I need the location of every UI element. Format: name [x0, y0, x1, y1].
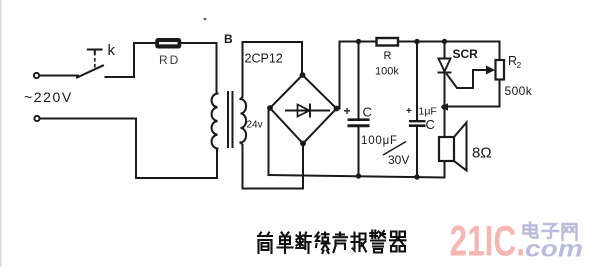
switch K dashed actuator line	[94, 52, 96, 70]
capacitor C 100uF plates	[348, 118, 370, 121]
svg-text:k: k	[108, 42, 116, 59]
svg-text:8Ω: 8Ω	[472, 145, 492, 162]
svg-text:21IC.: 21IC.	[450, 218, 526, 266]
fuse RD	[156, 39, 181, 48]
watermark 电子网 (hand-drawn strokes)	[524, 223, 577, 241]
node C+ on rail	[356, 39, 361, 44]
SCR cathode lead	[444, 73, 446, 138]
svg-text:C: C	[363, 105, 372, 120]
svg-text:R: R	[384, 50, 392, 62]
resistor R 100k	[377, 38, 399, 46]
bridge diode symbol	[286, 105, 329, 117]
svg-text:30V: 30V	[388, 153, 409, 167]
speaker horn	[454, 123, 467, 171]
svg-text:100μF: 100μF	[361, 135, 398, 147]
capacitor C 100uF bottom lead	[358, 127, 360, 176]
SCR thyristor triangle	[439, 59, 451, 72]
capacitor C 1uF plates	[409, 120, 426, 122]
char 声	[334, 233, 348, 253]
wire switch to fuse (up then right)	[134, 43, 157, 77]
node right vertex	[334, 106, 340, 112]
char 电	[524, 223, 538, 238]
capacitor C 100uF lead	[358, 42, 360, 119]
transformer core	[227, 92, 229, 147]
svg-text:2: 2	[517, 60, 522, 70]
top positive rail	[340, 42, 500, 61]
node 1uF+ on rail	[414, 39, 419, 44]
capacitor C 1uF bottom lead	[416, 127, 418, 177]
char 断	[296, 233, 311, 254]
speaker bottom lead	[444, 161, 446, 178]
char 报	[352, 233, 367, 252]
bottom negative rail	[269, 175, 445, 178]
terminal 2 (AC neutral)	[34, 116, 39, 121]
potentiometer R2 body	[496, 60, 505, 80]
svg-text:24v: 24v	[247, 120, 263, 131]
SCR cathode bar	[439, 72, 451, 74]
node top vertex	[300, 72, 306, 78]
svg-text:~220V: ~220V	[24, 89, 73, 105]
wire from terminal 1 to switch	[40, 75, 78, 77]
speaker 8ohm driver	[439, 137, 454, 161]
svg-text:+: +	[344, 104, 351, 118]
gate arrowhead into R2	[486, 66, 495, 75]
SCR anode lead	[444, 42, 446, 59]
R2 bottom lead to cathode junction	[448, 80, 500, 107]
char 网	[563, 224, 577, 240]
node bottom vertex	[300, 141, 306, 147]
svg-text:SCR: SCR	[453, 47, 479, 61]
svg-text:100k: 100k	[375, 66, 399, 78]
faint left page edge	[0, 0, 2, 267]
switch K blade	[77, 66, 103, 78]
ink speck	[204, 18, 207, 21]
node left vertex	[267, 105, 273, 111]
svg-text:B: B	[224, 32, 233, 46]
transformer B secondary winding	[241, 99, 247, 143]
node SCR anode on rail	[442, 39, 447, 44]
node C- on bottom rail	[356, 173, 361, 178]
bridge rectifier 2CP12 diamond	[270, 75, 337, 144]
switch K T-bar	[88, 50, 102, 54]
riser to bridge top vertex	[301, 42, 303, 75]
caption 简单断续声报警器 (hand-drawn CJK strokes)	[258, 231, 406, 254]
junction arrow/dot at cathode	[441, 103, 449, 110]
char 续	[316, 233, 330, 254]
svg-text:1μF: 1μF	[419, 106, 437, 118]
SCR gate wire	[447, 70, 487, 88]
svg-text:com: com	[525, 236, 583, 262]
svg-text:500k: 500k	[505, 84, 533, 98]
char 子	[543, 224, 559, 238]
wire fuse to transformer primary top	[180, 43, 217, 94]
char 警	[370, 231, 385, 253]
svg-text:2CP12: 2CP12	[245, 52, 283, 66]
svg-text:C: C	[426, 117, 435, 132]
wire bridge - output to bottom rail	[269, 108, 271, 175]
terminal 1 (AC live)	[34, 73, 39, 78]
svg-text:RD: RD	[159, 53, 180, 67]
capacitor C 1uF top lead	[416, 42, 418, 121]
node 1uF- on bottom rail	[414, 174, 419, 179]
transformer B primary winding	[212, 94, 218, 149]
secondary bottom lead to bridge AC2	[241, 143, 304, 189]
fraction slash	[383, 142, 406, 156]
wire terminal 2 to primary bottom	[41, 119, 218, 179]
wire bridge + output to top rail	[337, 42, 340, 109]
char 器	[390, 232, 406, 252]
svg-text:+: +	[406, 106, 412, 117]
char 简	[258, 233, 272, 254]
char 单	[278, 233, 293, 254]
switch fixed contact wire	[106, 76, 135, 78]
secondary top lead to bridge AC1	[241, 42, 303, 99]
